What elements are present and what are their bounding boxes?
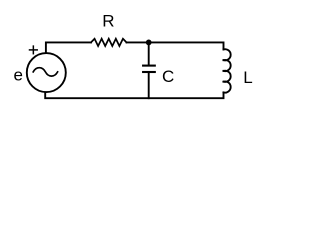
svg-text:R: R [102, 12, 114, 31]
plus sign [30, 46, 38, 54]
svg-text:C: C [162, 67, 174, 86]
capacitor wire upper [148, 42, 150, 65]
capacitor C plates [143, 65, 155, 67]
svg-text:e: e [13, 66, 22, 85]
junction node dot [146, 40, 152, 46]
wire top-left segment [46, 42, 91, 52]
resistor R [91, 39, 127, 46]
svg-text:L: L [243, 68, 252, 87]
source circle e [27, 53, 66, 92]
sine wave [33, 68, 57, 76]
capacitor wire lower [148, 73, 150, 98]
inductor L coil [224, 49, 231, 60]
wire bottom segment [45, 92, 223, 98]
wire top-right segment [127, 42, 224, 49]
